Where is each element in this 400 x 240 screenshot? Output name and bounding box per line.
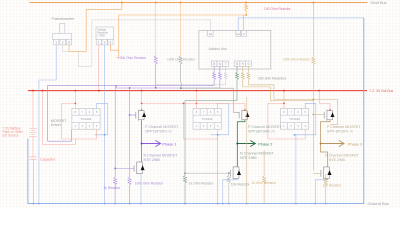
svg-text:Potentiometer: Potentiometer <box>52 17 76 21</box>
node: red bus junctions <box>32 90 320 92</box>
5V bus <box>30 2 368 4</box>
label: regulator pin numbers <box>98 41 112 45</box>
svg-text:9: 9 <box>242 62 244 66</box>
svg-text:SPP18P10PL m: SPP18P10PL m <box>248 130 275 134</box>
MOSFET driver U5 TC4432 (right) <box>281 109 309 130</box>
node: phase2 arrow junction <box>236 143 238 145</box>
arrow of Q5 <box>237 170 241 175</box>
svg-text:N Channel MOSFET: N Channel MOSFET <box>325 153 360 157</box>
label: left driver pin numbers <box>75 110 98 128</box>
svg-text:P Channel MOSFET: P Channel MOSFET <box>248 125 282 129</box>
node: junction on pin6 rail <box>129 87 131 89</box>
svg-text:r 7805: r 7805 <box>97 34 105 38</box>
wire: pin7 to N1 gate (grey) <box>156 84 226 86</box>
svg-text:10k Resistor: 10k Resistor <box>231 182 251 186</box>
wire: regulator pin1 to red bus <box>98 45 100 91</box>
wire: tan rail to P3 gate <box>313 113 324 115</box>
svg-text:NTE 2980: NTE 2980 <box>144 158 161 162</box>
svg-text:DC Source: DC Source <box>3 134 19 138</box>
wire: left driver blue ground loop <box>95 103 108 135</box>
resistor 200ohm on pin9 (tan) <box>241 66 244 87</box>
svg-text:100k Ohm Resistor: 100k Ohm Resistor <box>135 182 164 186</box>
wire: pin8 to middle driver input (green) <box>185 100 237 102</box>
node: N2 gate feed junctions <box>184 172 230 174</box>
label: middle driver pin numbers <box>196 110 219 128</box>
svg-text:Ground Bus: Ground Bus <box>368 201 389 206</box>
node: middle driver pin8 junction <box>196 103 198 105</box>
svg-text:10k Resistor: 10k Resistor <box>322 183 342 187</box>
node: right driver pin8 junction <box>283 103 285 105</box>
battery B1 <box>29 91 37 157</box>
MOSFET driver U2 TC4402 (left) <box>72 109 100 130</box>
resistor 100k phase3 pull (tan, from 5V bus) <box>312 3 315 171</box>
wire: N1 source to ground (blue) <box>140 174 142 204</box>
7.2-30V bus <box>28 90 367 92</box>
wire: right driver red supply loop <box>268 91 305 139</box>
node: 1k top junction <box>114 168 116 170</box>
svg-text:7: 7 <box>225 62 227 66</box>
svg-text:1k Resistor: 1k Resistor <box>103 186 121 190</box>
ground bus <box>28 18 364 204</box>
wire: middle driver blue ground loop <box>211 103 229 203</box>
svg-text:NTE 2980: NTE 2980 <box>240 156 257 160</box>
arrow of Q2 <box>245 112 249 117</box>
wire: Arduino Gnd to right vertical (blue) <box>238 18 364 31</box>
resistor 200ohm on pin6 (purple) <box>218 66 221 87</box>
transistor Q1 P-channel MOSFET (phase 1) <box>136 110 144 121</box>
Arduino Uno U1 <box>199 30 271 69</box>
wire: N2 gate feed (grey) <box>185 172 230 174</box>
label: N channel MOSFET phase1 <box>144 153 179 162</box>
svg-text:N Channel MOSFET: N Channel MOSFET <box>144 153 179 157</box>
svg-text:2: 2 <box>62 41 64 45</box>
pin Gnd <box>236 30 241 36</box>
arrow of Q1 <box>142 112 146 117</box>
node: middle blue loop junction <box>217 134 219 136</box>
wire: grey rail to P2 gate <box>181 88 239 112</box>
svg-text:Driver: Driver <box>51 123 62 127</box>
svg-text:Phase 1: Phase 1 <box>162 142 176 147</box>
resistor 200ohm on pin10 (tan) <box>247 66 250 84</box>
transistor Q4 N-channel MOSFET (phase 1) <box>134 162 143 174</box>
node: red rail dots <box>141 103 331 111</box>
node: tan rail junctions <box>313 99 315 116</box>
svg-text:100k Ohm Resistor: 100k Ohm Resistor <box>283 57 311 61</box>
svg-text:P Channel MOSFET: P Channel MOSFET <box>145 125 179 129</box>
svg-text:3: 3 <box>110 41 112 45</box>
wire: phase2 net (green) P2 source to N2 drain <box>237 120 245 167</box>
resistor R-100ohm (on Vin feed) <box>245 4 248 11</box>
svg-text:1: 1 <box>55 41 57 45</box>
node: ground bus junctions <box>33 203 327 205</box>
wire: pot pin1 to ground (blue) <box>39 45 56 204</box>
wire: pin5 to left driver input (purple) <box>48 85 215 141</box>
wire: left driver red supply loop <box>62 91 97 139</box>
transistor Q2 P-channel MOSFET (phase 2) <box>239 110 247 121</box>
arrow of Q6 <box>328 170 332 175</box>
resistor 1k (phase3, tan) <box>246 97 248 204</box>
node: phase1 arrow junction <box>141 143 143 145</box>
svg-text:N Channel MOSFET: N Channel MOSFET <box>240 152 275 156</box>
arrow of Q3 <box>331 112 335 117</box>
svg-text:1k Ohm Resistor: 1k Ohm Resistor <box>252 181 277 185</box>
label: MOSFET Driver <box>51 119 68 127</box>
resistor 1k (phase1 gate pulldown, purple) <box>114 86 117 204</box>
node: right blue loop junction <box>294 134 296 136</box>
svg-text:5Volt Bus: 5Volt Bus <box>371 1 387 5</box>
resistor 10k (phase3, tan) <box>324 174 327 204</box>
MOSFET driver U3 TC4432 (middle) <box>193 109 221 130</box>
svg-text:1k Ohm Resistor: 1k Ohm Resistor <box>189 182 214 186</box>
resistor 200ohm on pin8 (green) <box>236 66 239 100</box>
label: 7.2V Battery Pack or Other DC Source <box>3 127 24 138</box>
capacitor C1 <box>30 157 37 159</box>
wire: regulator pin3 to Vin via 100 ohm (orange) <box>110 3 246 58</box>
svg-text:Arduino Uno: Arduino Uno <box>209 47 227 51</box>
label: right driver pin numbers <box>283 110 306 128</box>
wire: pin6 to P1 gate rail (purple) <box>115 86 220 88</box>
resistor 100k phase2 pull (grey, from 5V bus) <box>180 3 182 56</box>
transistor Q3 P-channel MOSFET (phase 3) <box>324 110 332 121</box>
wire: right driver blue ground loop <box>295 103 316 203</box>
svg-text:SPP18P10PL m: SPP18P10PL m <box>145 130 172 134</box>
wire: pin10 joins phase3 gate rail (tan) <box>249 85 338 125</box>
resistor 1k (phase2 gate series, grey) <box>183 101 186 204</box>
svg-text:Phase 2: Phase 2 <box>258 142 272 147</box>
pin Vin <box>242 30 247 36</box>
wire: middle driver red supply loop <box>184 91 218 139</box>
svg-text:100k Ohm Resistor: 100k Ohm Resistor <box>167 58 196 62</box>
svg-text:TC4432: TC4432 <box>289 117 300 121</box>
wire: tan rail to N3 gate <box>313 172 321 174</box>
arrow of Q4 <box>141 165 145 170</box>
svg-text:8: 8 <box>236 62 238 66</box>
label: N channel MOSFET phase3 <box>325 153 360 162</box>
svg-text:Capacitor: Capacitor <box>40 157 56 161</box>
svg-text:NTE 2980: NTE 2980 <box>329 158 346 162</box>
node: purple rail junction at 155.7 <box>155 87 157 89</box>
svg-text:P Channel MOSFET: P Channel MOSFET <box>327 125 361 129</box>
wire: battery feed red left <box>43 91 76 145</box>
wire: pin9 to right driver input (tan) <box>243 87 314 101</box>
svg-text:TC4402: TC4402 <box>80 117 91 121</box>
svg-text:5: 5 <box>213 62 215 66</box>
node: orange Vin junction <box>245 14 247 16</box>
node: grey rail junction <box>180 87 182 89</box>
resistor 200ohm on pin5 (purple) <box>213 66 216 85</box>
label: P channel MOSFET phase3 <box>327 125 361 134</box>
svg-text:7.2- 30 Volt Bus: 7.2- 30 Volt Bus <box>369 89 393 93</box>
svg-text:6: 6 <box>219 62 221 66</box>
label: Voltage Regulator 7805 <box>97 28 108 38</box>
wire: regulator pin2 to ground bus (blue) <box>104 45 106 204</box>
phase 2 arrow <box>237 140 255 146</box>
phase 3 arrow <box>321 140 344 146</box>
resistor 1k phase3 gate (tan) <box>263 150 266 204</box>
svg-text:Phase 3: Phase 3 <box>348 142 362 147</box>
pin A0 <box>208 30 213 36</box>
node: left blue loop junction <box>104 134 106 136</box>
resistor 100k (phase1, purple column) <box>128 88 131 204</box>
wire: N1 gate feed (purple) <box>115 167 134 169</box>
wire: N2 source to ground (blue) <box>223 178 238 203</box>
svg-text:A0: A0 <box>209 32 213 36</box>
node: P1 gate junction <box>129 114 131 116</box>
wire: capacitor to ground (blue) <box>33 159 35 203</box>
transistor Q6 N-channel MOSFET (phase 3) <box>321 167 330 179</box>
svg-text:SPP-8P10PL m: SPP-8P10PL m <box>327 130 353 134</box>
resistor 200ohm on pin7 (grey) <box>224 66 227 84</box>
node: left driver pin8 junction <box>75 103 77 105</box>
pins 8 9 10 <box>234 61 251 66</box>
svg-text:100 Ohm Resistor: 100 Ohm Resistor <box>264 7 291 11</box>
potentiometer POT1 <box>52 23 71 45</box>
wire: P1 gate (purple) <box>130 114 136 116</box>
svg-text:Gn: Gn <box>237 32 241 36</box>
svg-text:1: 1 <box>98 41 100 45</box>
wire: pot pin3 to 5V bus (orange) <box>69 3 122 52</box>
wire: phase1 net (purple) P1 source to N1 drain <box>141 120 143 162</box>
phase 1 arrow <box>142 140 161 146</box>
svg-text:2: 2 <box>104 41 106 45</box>
transistor Q5 N-channel MOSFET (phase 2) <box>230 167 239 179</box>
wire: pot pin2 to Arduino A0 (grey) <box>63 20 211 67</box>
voltage regulator U4 (7805) <box>96 27 114 45</box>
node: phase3 arrow junction <box>320 143 322 145</box>
node: 5V bus junctions <box>121 2 315 4</box>
label: N channel MOSFET phase2 <box>240 152 275 161</box>
wire: N3 source to ground (blue) <box>315 178 327 203</box>
resistor 10k (phase2, grey) <box>227 173 230 203</box>
pins 5 6 7 <box>211 61 228 66</box>
label: P channel MOSFET phase2 <box>248 125 282 134</box>
svg-text:3: 3 <box>68 41 70 45</box>
wire: phase3 net (tan) P3 source to N3 drain <box>321 120 330 167</box>
label: P channel MOSFET phase1 <box>145 125 179 134</box>
svg-text:200 ohm Resistors: 200 ohm Resistors <box>258 77 287 81</box>
wire: red rail phase1-2 (bus to P-FET drains) <box>142 91 330 111</box>
svg-text:TC4432: TC4432 <box>202 117 213 121</box>
label: potentiometer pin numbers <box>55 41 70 45</box>
svg-text:0: 0 <box>248 62 250 66</box>
resistor 100k phase1 pull (purple, from 5V bus) <box>155 3 157 56</box>
svg-text:100k Ohm Resistor: 100k Ohm Resistor <box>118 56 147 60</box>
